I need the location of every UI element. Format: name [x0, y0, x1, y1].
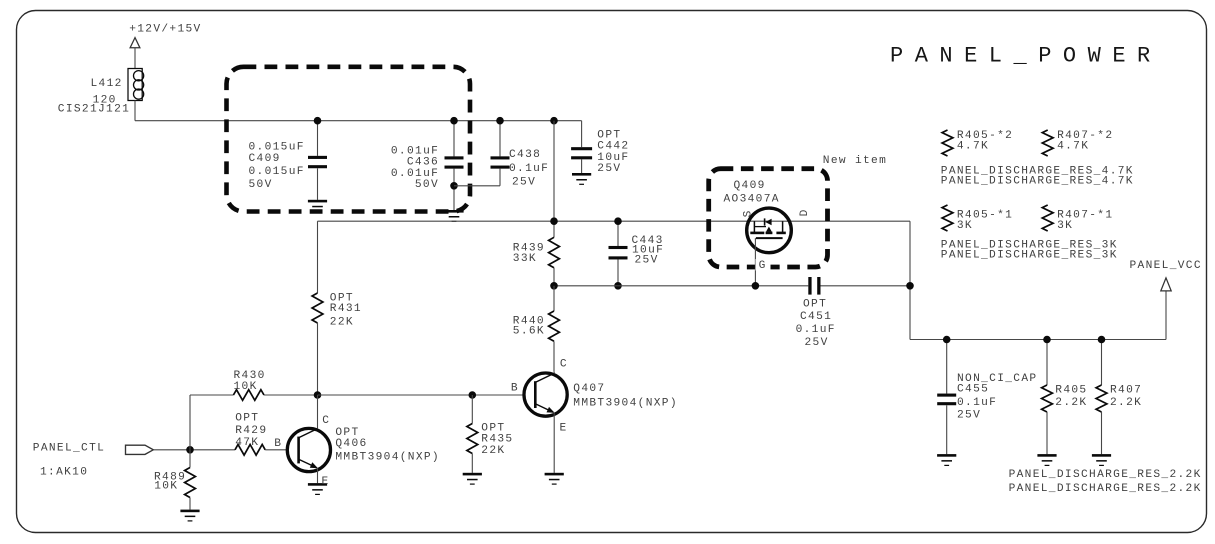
svg-text:New item: New item [823, 155, 887, 167]
ground (C455) [937, 454, 956, 457]
dashed revision box 2 (New item) [709, 169, 828, 267]
capacitor C443 10uF [617, 221, 619, 246]
node C455 top [943, 336, 951, 344]
ground (C436) [444, 210, 463, 213]
svg-text:D: D [799, 208, 811, 216]
svg-text:PANEL_DISCHARGE_RES_3K: PANEL_DISCHARGE_RES_3K [941, 250, 1118, 262]
wire right of C451 [821, 285, 911, 287]
svg-text:Q407: Q407 [573, 383, 605, 395]
svg-text:22K: 22K [330, 316, 354, 328]
svg-text:C455: C455 [957, 383, 989, 395]
node x=910 junction [906, 282, 914, 290]
svg-text:0.01uF: 0.01uF [391, 145, 439, 157]
svg-text:OPT: OPT [803, 298, 827, 310]
svg-text:0.015uF: 0.015uF [249, 166, 305, 178]
svg-text:10K: 10K [154, 480, 178, 492]
node C436/C438 bottom junction [450, 182, 458, 190]
resistor R440 5.6K [553, 286, 555, 311]
ground (R489) [180, 510, 199, 513]
node C438 top junction [496, 117, 504, 125]
svg-text:CIS21J121: CIS21J121 [58, 103, 130, 115]
svg-text:25V: 25V [512, 177, 536, 189]
wire x=190 vertical [189, 395, 191, 450]
svg-text:B: B [511, 383, 519, 395]
node PANEL_CTL junction [186, 446, 194, 454]
svg-text:C436: C436 [407, 157, 439, 169]
svg-text:25V: 25V [805, 337, 829, 349]
node main rail junction x=554 [550, 117, 558, 125]
wire Q409 gate lead [754, 238, 756, 286]
capacitor C455 NON_CI_CAP [946, 340, 948, 394]
wire vertical x=554 rail to rail2 [553, 121, 555, 222]
svg-text:0.1uF: 0.1uF [957, 397, 997, 409]
capacitor C409 [317, 121, 319, 156]
svg-text:2.2K: 2.2K [1110, 397, 1142, 409]
resistor R407 2.2K [1101, 340, 1103, 386]
svg-text:PANEL_DISCHARGE_RES_4.7K: PANEL_DISCHARGE_RES_4.7K [941, 176, 1134, 188]
svg-text:PANEL_VCC: PANEL_VCC [1130, 260, 1202, 272]
resistor R405 2.2K [1046, 340, 1048, 386]
svg-text:3K: 3K [957, 220, 973, 232]
svg-text:S: S [742, 209, 754, 217]
svg-text:25V: 25V [635, 254, 659, 266]
node R405 top [1043, 336, 1051, 344]
wire power arrow to L412 [134, 48, 136, 69]
wire Q406 collector [317, 395, 319, 429]
wire Q407 emitter to ground [553, 412, 555, 473]
wire PANEL_CTL to R429 [153, 449, 235, 451]
svg-text:E: E [560, 422, 568, 434]
svg-text:C442: C442 [597, 141, 629, 153]
node R439/R440 junction [550, 282, 558, 290]
wire Q406 emitter to ground [317, 468, 319, 483]
svg-text:0.1uF: 0.1uF [509, 163, 549, 175]
node C443 bottom [614, 282, 622, 290]
svg-text:0.015uF: 0.015uF [249, 141, 305, 153]
svg-text:C: C [560, 359, 568, 371]
node Q407 base junction [469, 391, 477, 399]
dashed revision box 1 [227, 67, 471, 212]
wire bottom bus y=340 [910, 339, 1166, 341]
transistor Q407 MMBT3904 [524, 373, 567, 416]
svg-text:10K: 10K [234, 381, 258, 393]
svg-text:L412: L412 [91, 78, 123, 90]
svg-text:5.6K: 5.6K [513, 326, 545, 338]
svg-text:R431: R431 [330, 303, 362, 315]
ground (C442) [572, 173, 591, 176]
svg-text:C409: C409 [249, 153, 281, 165]
svg-text:R435: R435 [481, 434, 513, 446]
capacitor C451 (OPT 0.1uF) [808, 277, 811, 295]
transistor Q409 AO3407A (P-MOSFET) [747, 208, 792, 253]
resistor R407-*2 4.7K [1042, 130, 1053, 156]
svg-text:Q409: Q409 [734, 180, 766, 192]
svg-text:1:AK10: 1:AK10 [40, 467, 88, 479]
svg-text:PANEL_DISCHARGE_RES_2.2K: PANEL_DISCHARGE_RES_2.2K [1009, 469, 1202, 481]
svg-text:B: B [274, 438, 282, 450]
svg-text:MMBT3904(NXP): MMBT3904(NXP) [335, 451, 440, 463]
capacitor C438 [499, 121, 501, 157]
svg-text:PANEL_CTL: PANEL_CTL [33, 443, 105, 455]
wire junction to Q407 base [318, 394, 525, 396]
node rail2 x=554 [550, 217, 558, 225]
svg-text:C438: C438 [509, 149, 541, 161]
resistor R407-*1 3K [1042, 205, 1053, 231]
svg-text:AO3407A: AO3407A [724, 193, 780, 205]
ground (R435) [463, 473, 482, 476]
ground (R405) [1037, 454, 1056, 457]
wire y=395 rail (R430 row) [190, 394, 233, 396]
svg-text:4.7K: 4.7K [957, 140, 989, 152]
wire Q407 collector [553, 372, 555, 373]
svg-text:R405: R405 [1055, 385, 1087, 397]
resistor R431 (OPT 22K) [312, 293, 323, 323]
ground (C409) [308, 200, 327, 203]
svg-text:10uF: 10uF [597, 152, 629, 164]
ground (R407) [1092, 454, 1111, 457]
svg-text:R407: R407 [1110, 385, 1142, 397]
wire C438 bottom to C436 [454, 185, 500, 187]
svg-text:OPT: OPT [597, 129, 621, 141]
ground (Q407 emitter) [545, 473, 564, 476]
node R430/R431/Q406 collector junction [314, 391, 322, 399]
svg-text:25V: 25V [957, 410, 981, 422]
svg-text:R429: R429 [235, 425, 267, 437]
svg-text:25V: 25V [597, 163, 621, 175]
pin G [756, 259, 771, 271]
svg-text:OPT: OPT [235, 413, 259, 425]
svg-text:33K: 33K [513, 253, 537, 265]
wire L412 to main rail [134, 101, 136, 121]
node gate junction [752, 282, 760, 290]
svg-text:MMBT3904(NXP): MMBT3904(NXP) [573, 398, 678, 410]
resistor R430 10K [233, 390, 264, 401]
node C436 top junction [450, 117, 458, 125]
node C443 top [614, 217, 622, 225]
resistor R489 10K [189, 450, 191, 468]
transistor Q406 (OPT MMBT3904) [287, 428, 330, 471]
svg-text:G: G [759, 260, 767, 272]
resistor R405-*1 3K [942, 205, 953, 231]
port PANEL_CTL [126, 445, 154, 454]
ground (Q406 emitter) [308, 483, 327, 486]
capacitor C436 [453, 121, 455, 157]
wire R429 to Q406 base [265, 449, 287, 451]
svg-text:22K: 22K [481, 445, 505, 457]
svg-text:C451: C451 [800, 311, 832, 323]
wire third rail y=286 (left of C451) [554, 285, 808, 287]
wire second rail y=221 [318, 220, 911, 222]
inductor L412 [128, 69, 142, 101]
svg-text:2.2K: 2.2K [1055, 397, 1087, 409]
svg-text:E: E [322, 476, 330, 488]
wire main top rail y=121 [135, 120, 582, 122]
svg-text:47K: 47K [235, 437, 259, 449]
svg-text:0.1uF: 0.1uF [796, 324, 836, 336]
net PANEL_VCC [1165, 291, 1167, 340]
svg-text:C: C [322, 415, 330, 427]
svg-text:3K: 3K [1057, 220, 1073, 232]
resistor R429 (OPT 47K) [235, 445, 265, 456]
node R407 top [1098, 336, 1106, 344]
wire vertical x=317.5 down to R431 [317, 221, 319, 293]
node C409 top junction [314, 117, 322, 125]
svg-text:Q406: Q406 [335, 438, 367, 450]
svg-text:4.7K: 4.7K [1057, 140, 1089, 152]
resistor R435 (OPT 22K) [471, 395, 473, 424]
svg-text:PANEL_POWER: PANEL_POWER [890, 43, 1162, 68]
svg-text:50V: 50V [415, 179, 439, 191]
wire vertical x=910 [909, 221, 911, 339]
resistor R439 33K [553, 221, 555, 237]
svg-text:+12V/+15V: +12V/+15V [129, 23, 201, 35]
capacitor C442 (OPT) [581, 121, 583, 147]
svg-text:PANEL_DISCHARGE_RES_2.2K: PANEL_DISCHARGE_RES_2.2K [1009, 483, 1202, 495]
resistor R405-*2 4.7K [942, 130, 953, 156]
svg-text:50V: 50V [249, 179, 273, 191]
